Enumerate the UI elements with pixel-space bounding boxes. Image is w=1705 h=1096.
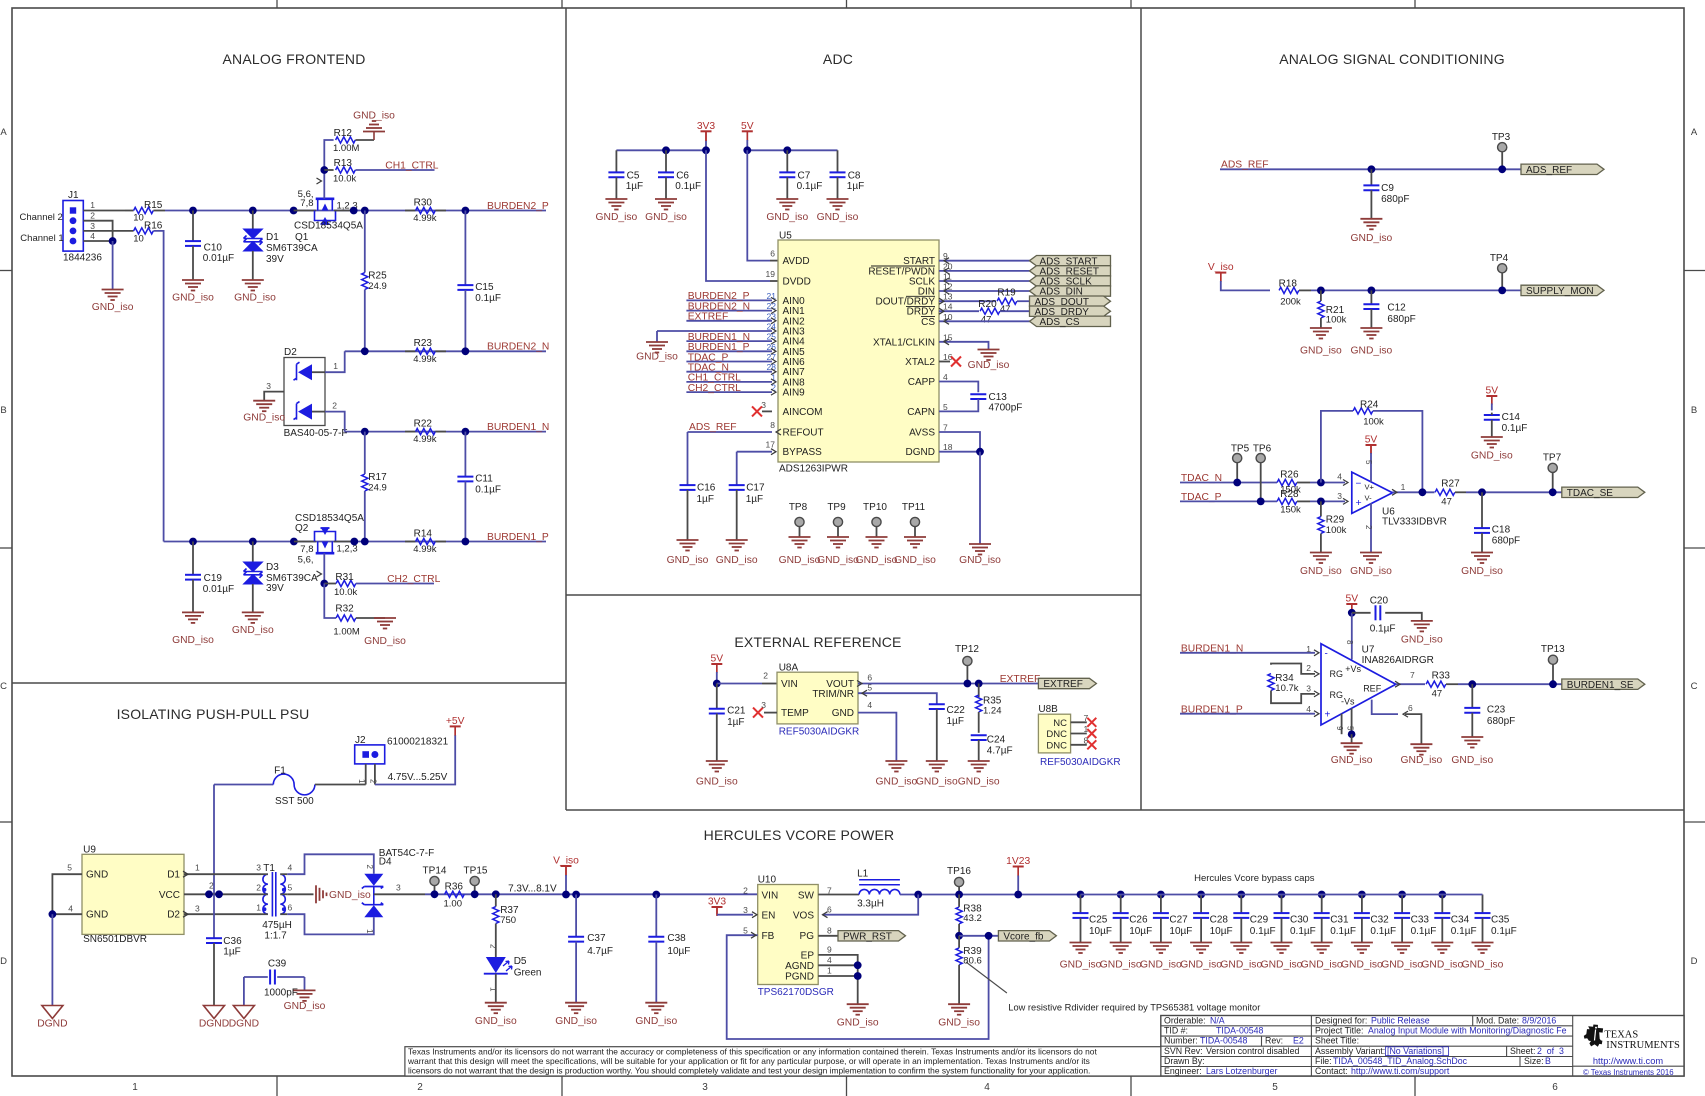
svg-text:C28: C28 [1210, 915, 1229, 926]
svg-text:C6: C6 [676, 171, 689, 182]
capacitor C33 [1398, 891, 1406, 899]
svg-text:C18: C18 [1492, 524, 1511, 535]
svg-text:C7: C7 [798, 171, 811, 182]
ground GND_iso at XTAL1 [978, 350, 1000, 361]
svg-text:4: 4 [867, 700, 872, 710]
svg-text:4.7µF: 4.7µF [587, 946, 613, 957]
no-connect X at AINCOM [762, 410, 772, 412]
LED D5 [486, 957, 506, 973]
svg-text:2: 2 [1306, 663, 1311, 673]
svg-text:10.7k: 10.7k [1275, 683, 1298, 694]
svg-text:4: 4 [827, 955, 832, 965]
svg-text:INA826AIDRGR: INA826AIDRGR [1362, 655, 1434, 666]
T1 winding connection stubs [261, 873, 268, 875]
wire U6 output [1393, 491, 1435, 493]
resistor R29 vertical [1320, 501, 1322, 516]
wire J1 pin3 to R16 [83, 230, 133, 232]
svg-text:5V: 5V [1485, 386, 1498, 397]
port ADS_START [1030, 256, 1111, 266]
capacitor C14 with 5V [1486, 395, 1497, 397]
svg-text:BYPASS: BYPASS [783, 447, 823, 458]
junction D1 top [249, 207, 257, 215]
wire TDAC_P [1180, 500, 1277, 502]
svg-text:100k: 100k [1326, 525, 1347, 536]
svg-text:Designed for:: Designed for: [1315, 1015, 1367, 1025]
svg-text:3: 3 [1306, 684, 1311, 694]
svg-text:GND_iso: GND_iso [1462, 960, 1504, 971]
svg-text:C21: C21 [727, 706, 746, 717]
power 3V3 at EN [712, 906, 723, 908]
svg-text:C10: C10 [204, 243, 223, 254]
svg-text:GND_iso: GND_iso [1261, 960, 1303, 971]
svg-text:C27: C27 [1169, 915, 1188, 926]
junction Vcore_fb [985, 932, 993, 940]
capacitor C20 [1352, 612, 1371, 614]
svg-text:D3: D3 [266, 562, 279, 573]
ground GND_iso at D2 [253, 401, 275, 412]
capacitor C6 [665, 150, 667, 172]
svg-text:3: 3 [266, 381, 271, 391]
svg-text:GND_iso: GND_iso [1471, 451, 1513, 462]
wire PSU output rail [425, 893, 758, 895]
svg-text:C9: C9 [1381, 183, 1394, 194]
svg-text:1: 1 [90, 200, 95, 210]
svg-text:GND_iso: GND_iso [1351, 346, 1393, 357]
svg-text:24.9: 24.9 [368, 482, 387, 493]
svg-text:1µF: 1µF [697, 494, 714, 505]
port ADS_SCLK [1030, 276, 1111, 286]
wire AIN TDAC_N [686, 371, 772, 373]
U8B unused pins [1071, 721, 1087, 723]
wire AIN BURDEN2_P [686, 299, 772, 301]
ground DGND under U9 [42, 1006, 63, 1019]
capacitor C21 [716, 684, 718, 709]
svg-text:-: - [1325, 648, 1328, 659]
ground GND_iso under J1 [102, 290, 124, 301]
ground GND_iso under C24 [968, 761, 990, 772]
wire ADS_DRDY [939, 310, 979, 312]
testpoint TP15 [470, 876, 479, 885]
wire BURDEN1_P to U7 pin4 [1180, 713, 1315, 715]
svg-text:Channel 2: Channel 2 [20, 212, 63, 223]
svg-text:REF5030AIDGKR: REF5030AIDGKR [1040, 757, 1121, 768]
wire AIN EXTREF [686, 320, 772, 322]
svg-text:REFOUT: REFOUT [783, 428, 824, 439]
resistor R19 [997, 298, 1017, 304]
svg-text:1: 1 [256, 903, 261, 913]
svg-text:680pF: 680pF [1387, 314, 1415, 325]
resistor R36 [445, 891, 465, 897]
svg-text:R30: R30 [414, 198, 433, 209]
capacitor C16 [687, 432, 689, 485]
wire 3V3 to rail [705, 140, 707, 150]
svg-text:0.1µF: 0.1µF [1451, 926, 1477, 937]
wire U9 D2 to T1 pin1 [184, 913, 261, 915]
svg-text:PGND: PGND [785, 972, 814, 983]
junction C15 top [462, 207, 470, 215]
svg-text:5: 5 [1272, 1082, 1278, 1093]
svg-text:Low resistive Rdivider require: Low resistive Rdivider required by TPS65… [1008, 1002, 1260, 1012]
svg-text:4: 4 [943, 372, 948, 382]
ground GND_iso under C38 [645, 1003, 667, 1014]
svg-text:C32: C32 [1370, 915, 1389, 926]
wire BURDEN1_N rail [345, 431, 546, 433]
wire DVDD from 3V3 [706, 150, 770, 281]
capacitor C35 [1482, 895, 1484, 914]
svg-text:8: 8 [827, 925, 832, 935]
testpoint TP9 [833, 517, 842, 526]
power 1V23 [1013, 866, 1024, 868]
svg-text:R32: R32 [335, 604, 354, 615]
svg-text:1: 1 [827, 966, 832, 976]
svg-text:TP11: TP11 [902, 502, 926, 513]
testpoint TP16 [955, 877, 964, 886]
junction R38 R39 [955, 932, 963, 940]
svg-text:GND_iso: GND_iso [1301, 960, 1343, 971]
wire U9 D1 to T1 pin3 [184, 873, 261, 875]
ground GND_iso under C34 [1431, 943, 1453, 954]
svg-text:D4: D4 [379, 857, 392, 868]
svg-text:R26: R26 [1280, 470, 1299, 481]
svg-text:0.1µF: 0.1µF [1290, 926, 1316, 937]
ground GND_iso under C10 [182, 280, 204, 291]
port ADS_REF [1521, 164, 1604, 174]
svg-text:2: 2 [332, 401, 337, 411]
svg-text:AVSS: AVSS [909, 428, 935, 439]
svg-text:GND_iso: GND_iso [1100, 960, 1142, 971]
junction 3V3 drop [702, 146, 710, 154]
svg-text:GND_iso: GND_iso [1060, 960, 1102, 971]
ground DGND at C39 [233, 1006, 254, 1019]
port Vcore_fb [998, 931, 1056, 941]
wire SW to L1 [818, 894, 859, 896]
junction U6 output [1419, 488, 1427, 496]
svg-text:4.75V...5.25V: 4.75V...5.25V [388, 772, 448, 783]
wire 5V to VIN [717, 683, 762, 685]
svg-text:C30: C30 [1290, 915, 1309, 926]
wire ADS_DOUT [939, 300, 996, 302]
svg-text:5: 5 [743, 926, 748, 936]
svg-text:ADS_REF: ADS_REF [689, 422, 737, 433]
wire R16 down to BURDEN1_P rail [153, 231, 163, 542]
svg-text:C25: C25 [1089, 915, 1108, 926]
wire rail end to C35 [1081, 894, 1483, 896]
svg-text:8: 8 [1345, 640, 1354, 645]
svg-text:+: + [1356, 497, 1362, 509]
svg-text:Hercules Vcore bypass caps: Hercules Vcore bypass caps [1194, 873, 1315, 884]
svg-text:GND_iso: GND_iso [1220, 960, 1262, 971]
ground GND_iso under C28 [1190, 943, 1212, 954]
svg-text:TRIM/NR: TRIM/NR [812, 689, 854, 700]
svg-text:C16: C16 [697, 483, 716, 494]
svg-text:CH1_CTRL: CH1_CTRL [385, 160, 438, 171]
svg-text:1: 1 [195, 862, 200, 872]
svg-text:SW: SW [798, 891, 815, 902]
section divider vertical x1141 [1140, 8, 1142, 810]
svg-text:1: 1 [1306, 644, 1311, 654]
ground GND_iso above R12 flipped [373, 132, 375, 141]
wire CAPP to C13 [939, 382, 978, 393]
svg-text:Drawn By:: Drawn By: [1164, 1056, 1205, 1066]
svg-text:R16: R16 [144, 221, 163, 232]
ground GND_iso under C12 [1360, 328, 1382, 339]
svg-text:C12: C12 [1387, 303, 1406, 314]
svg-text:14: 14 [943, 302, 953, 312]
svg-text:4.99k: 4.99k [413, 213, 436, 224]
capacitor C23 [1471, 684, 1473, 708]
svg-text:GND_iso: GND_iso [635, 1016, 677, 1027]
wire Q2 gate down [323, 553, 325, 583]
svg-text:R36: R36 [445, 882, 464, 893]
wire AIN BURDEN1_N [686, 340, 772, 342]
ground GND_iso under C25 [1070, 943, 1092, 954]
svg-text:J2: J2 [355, 735, 366, 746]
svg-text:3V3: 3V3 [697, 121, 716, 132]
svg-text:R14: R14 [414, 528, 433, 539]
svg-text:5,6,: 5,6, [298, 555, 314, 566]
svg-text:© Texas Instruments 2016: © Texas Instruments 2016 [1583, 1068, 1674, 1077]
svg-text:SUPPLY_MON: SUPPLY_MON [1526, 286, 1594, 297]
svg-text:475µH: 475µH [262, 920, 292, 931]
svg-text:4.7µF: 4.7µF [987, 746, 1013, 757]
svg-text:10µF: 10µF [1089, 926, 1112, 937]
svg-text:EXTREF: EXTREF [1043, 679, 1082, 690]
zone row ticks right [1684, 270, 1705, 272]
ground GND_iso under EP [847, 1004, 869, 1015]
wire Q2 stub [294, 541, 316, 543]
resistor R14 [405, 541, 416, 543]
capacitor C39 isolation [244, 976, 268, 978]
capacitor C15 [464, 211, 466, 285]
ground GND_iso at C20 [1411, 621, 1433, 632]
svg-text:1µF: 1µF [746, 494, 763, 505]
svg-text:R13: R13 [334, 158, 353, 169]
TVS diode D1 [252, 211, 254, 230]
svg-text:B: B [1691, 405, 1697, 416]
power 5V at U6 [1366, 444, 1377, 446]
wire 5V rail [747, 149, 837, 151]
junction C23 [1468, 680, 1476, 688]
junction C11 bottom [462, 538, 470, 546]
ground GND_iso at R32 [374, 618, 396, 629]
svg-text:GND_iso: GND_iso [716, 555, 758, 566]
svg-text:6: 6 [827, 905, 832, 915]
svg-text:39V: 39V [266, 583, 284, 594]
wire T1 pin6 to D4 [287, 914, 374, 934]
svg-text:CSD18534Q5A: CSD18534Q5A [294, 220, 363, 231]
wire VOS feedback [823, 895, 919, 915]
testpoint TP14 [430, 876, 439, 885]
svg-text:Channel 1: Channel 1 [20, 233, 63, 244]
wire J2 pin2 to +5V [375, 735, 455, 785]
wire F1 down to transformer VCC [213, 785, 215, 895]
svg-text:−: − [1356, 479, 1362, 490]
svg-text:NC: NC [1053, 718, 1067, 729]
ground GND_iso under U7 [1341, 743, 1363, 754]
svg-text:R15: R15 [144, 200, 163, 211]
IC U8A REF5030AIDGKR [777, 672, 858, 724]
svg-text:2: 2 [209, 881, 214, 891]
ground GND_iso under C26 [1110, 943, 1132, 954]
svg-text:TP13: TP13 [1541, 644, 1565, 655]
capacitor C25 [1077, 891, 1085, 899]
wire to BURDEN1_SE port [1458, 683, 1562, 685]
ground GND_iso under C9 [1360, 219, 1382, 230]
resistor R34 gain loop [1271, 664, 1315, 674]
ground GND_iso at AIN3 [646, 342, 668, 353]
svg-text:TP4: TP4 [1490, 253, 1509, 264]
ground GND_iso under C31 [1311, 943, 1333, 954]
svg-text:V+: V+ [1365, 483, 1375, 492]
capacitor C7 [786, 150, 788, 172]
svg-text:4: 4 [288, 863, 293, 873]
resistor R25 vertical [364, 211, 366, 273]
wire AIN CH1_CTRL [686, 381, 772, 383]
svg-text:File:: File: [1315, 1056, 1332, 1066]
wire ADS_START [939, 260, 1030, 262]
capacitor C8 [837, 150, 839, 172]
svg-text:10µF: 10µF [1210, 926, 1233, 937]
svg-text:U7: U7 [1362, 645, 1375, 656]
svg-text:GND_iso: GND_iso [696, 776, 738, 787]
wire AIN BURDEN1_P [686, 350, 772, 352]
svg-text:R33: R33 [1432, 670, 1451, 681]
svg-text:GND_iso: GND_iso [894, 555, 936, 566]
wire AVSS [939, 432, 980, 452]
capacitor C12 [1370, 290, 1372, 304]
wire BURDEN1_P rail [164, 541, 546, 543]
svg-text:GND_iso: GND_iso [968, 360, 1010, 371]
svg-text:AINCOM: AINCOM [783, 407, 823, 418]
junction R25 top [361, 207, 369, 215]
capacitor C13 [970, 394, 986, 399]
capacitor C30 [1278, 891, 1286, 899]
junction BURDEN2_N left [361, 347, 369, 355]
svg-text:6: 6 [288, 903, 293, 913]
junction VCC with +5V feed [205, 890, 213, 898]
svg-text:-Vs: -Vs [1341, 697, 1355, 707]
svg-text:GND_iso: GND_iso [1381, 960, 1423, 971]
TI logo [1584, 1025, 1603, 1047]
svg-text:DGND: DGND [199, 1019, 229, 1030]
wire to TDAC_SE port [1466, 491, 1562, 493]
svg-text:C24: C24 [987, 734, 1006, 745]
svg-text:U8A: U8A [779, 663, 799, 674]
svg-text:U8B: U8B [1038, 704, 1058, 715]
capacitor C28 [1197, 891, 1205, 899]
junction DGND AVSS [976, 448, 984, 456]
svg-text:4.99k: 4.99k [413, 544, 436, 555]
svg-text:C23: C23 [1487, 705, 1506, 716]
svg-text:D1: D1 [167, 870, 180, 881]
svg-text:GND_iso: GND_iso [837, 1018, 879, 1029]
svg-text:3: 3 [256, 863, 261, 873]
disclaimer box [405, 1047, 1161, 1076]
svg-text:5: 5 [67, 862, 72, 872]
wire Q1 source stub [294, 210, 316, 212]
svg-text:D2: D2 [284, 347, 297, 358]
resistor R35 vertical [978, 684, 980, 698]
svg-text:U9: U9 [83, 844, 96, 855]
power V_iso [1215, 272, 1226, 274]
svg-text:7: 7 [1410, 670, 1415, 680]
svg-text:TP12: TP12 [955, 644, 979, 655]
svg-text:TIDA-00548: TIDA-00548 [1216, 1026, 1264, 1036]
zone row ticks left [0, 270, 12, 272]
svg-text:R22: R22 [414, 418, 433, 429]
svg-text:1.00M: 1.00M [333, 143, 359, 154]
svg-text:R24: R24 [1360, 400, 1379, 411]
svg-text:CAPP: CAPP [908, 377, 936, 388]
zone column ticks top [276, 0, 278, 8]
svg-text:750: 750 [500, 915, 516, 926]
capacitor C27 [1157, 891, 1165, 899]
svg-text:AVDD: AVDD [783, 256, 810, 267]
svg-text:4: 4 [1306, 704, 1311, 714]
svg-text:C31: C31 [1330, 915, 1349, 926]
svg-text:R23: R23 [414, 338, 433, 349]
svg-text:1.24: 1.24 [983, 706, 1002, 717]
svg-text:V-: V- [1365, 494, 1373, 503]
svg-text:C11: C11 [475, 474, 493, 485]
junction Q1 right [350, 207, 358, 215]
junction C9 [1368, 165, 1376, 173]
svg-text:ADS_REF: ADS_REF [1526, 165, 1572, 176]
svg-text:GND_iso: GND_iso [1300, 566, 1342, 577]
junction Q2 right [350, 538, 358, 546]
capacitor C17 [736, 452, 738, 485]
svg-text:C22: C22 [947, 705, 966, 716]
svg-text:ADS_REF: ADS_REF [1221, 160, 1269, 171]
svg-text:Q1: Q1 [295, 232, 309, 243]
resistor R18 [1279, 287, 1299, 293]
svg-text:GND_iso: GND_iso [817, 555, 859, 566]
svg-text:GND_iso: GND_iso [596, 212, 638, 223]
wire REF pin6 to ground [1372, 700, 1398, 715]
port SUPPLY_MON [1521, 285, 1604, 295]
ground DGND under C36 [204, 1006, 225, 1019]
resistor R17 vertical [364, 432, 366, 474]
wire 5V to rail [746, 131, 748, 141]
testpoint TP7 [1548, 463, 1557, 472]
junction 5V drop [743, 146, 751, 154]
junction TP7 [1549, 488, 1557, 496]
wire D4 pin3 to rail [374, 893, 425, 895]
wire ADS_DIN [939, 290, 1030, 292]
transistor Q2 CSD18534Q5A [316, 552, 335, 555]
junction R35 top [975, 680, 983, 688]
wire to ground GND_iso from DGND [979, 452, 981, 544]
svg-text:GND_iso: GND_iso [779, 555, 821, 566]
svg-text:C34: C34 [1451, 915, 1470, 926]
svg-text:0.1µF: 0.1µF [1330, 926, 1356, 937]
ground GND_iso under R39 [948, 1004, 970, 1015]
svg-text:Number:: Number: [1164, 1036, 1198, 1046]
wire DGND [939, 451, 980, 453]
svg-text:GND_iso: GND_iso [1451, 755, 1493, 766]
svg-text:GND_iso: GND_iso [232, 625, 274, 636]
svg-text:DGND: DGND [229, 1019, 259, 1030]
svg-text:E2: E2 [1293, 1036, 1304, 1046]
wire C39 left to DGND [243, 977, 245, 1006]
svg-text:C15: C15 [475, 282, 494, 293]
svg-text:BURDEN1_SE: BURDEN1_SE [1567, 680, 1634, 691]
wire SUPPLY_MON rail [1311, 289, 1521, 291]
resistor R28 [1277, 498, 1297, 504]
svg-text:BURDEN2_N: BURDEN2_N [487, 342, 549, 353]
ground GND_iso under C18 [1471, 553, 1493, 564]
svg-text:200k: 200k [1280, 297, 1301, 308]
